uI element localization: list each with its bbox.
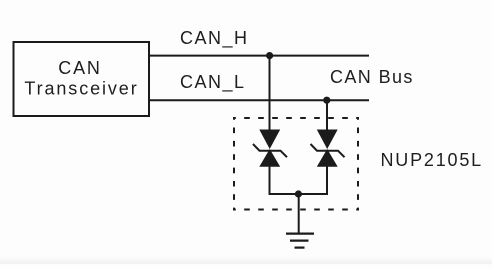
svg-text:CAN Bus: CAN Bus bbox=[330, 67, 414, 87]
wire CAN_H horizontal bbox=[150, 55, 369, 57]
wire D2 bottom bbox=[326, 166, 328, 194]
dashed box NUP2105L outline bbox=[233, 117, 359, 211]
wire CAN_H to D1 bbox=[269, 56, 271, 130]
junction dot on CAN_L bbox=[323, 97, 330, 104]
wire CAN_L horizontal bbox=[150, 99, 369, 101]
TVS diode D2 bbox=[311, 130, 345, 167]
svg-text:CAN_L: CAN_L bbox=[180, 72, 246, 93]
TVS diode D1 bbox=[253, 130, 287, 167]
junction dot center bbox=[295, 190, 302, 197]
svg-text:CAN: CAN bbox=[58, 58, 101, 78]
wire D1 bottom bbox=[269, 166, 271, 194]
junction dot on CAN_H bbox=[266, 52, 273, 59]
wire bottom connector bbox=[269, 193, 329, 195]
svg-text:Transceiver: Transceiver bbox=[24, 79, 138, 99]
svg-text:NUP2105L: NUP2105L bbox=[381, 150, 483, 170]
wire to ground bbox=[298, 194, 300, 234]
CAN Transceiver box U1 bbox=[14, 42, 150, 116]
ground bbox=[286, 234, 314, 248]
svg-text:CAN_H: CAN_H bbox=[180, 28, 249, 49]
wire CAN_L to D2 bbox=[326, 100, 328, 130]
